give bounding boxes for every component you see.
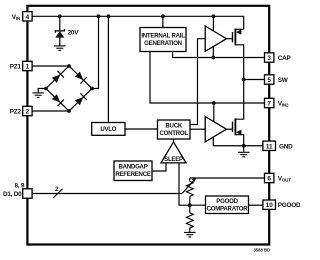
wire: bridge left corner to ground xyxy=(38,89,46,93)
wire: VIN rail from pin 4 to top MOSFET source xyxy=(32,16,243,29)
wire: internal rail generation top feed xyxy=(162,16,164,27)
bridge diode D3 (left-bottom) xyxy=(51,93,64,106)
svg-text:SW: SW xyxy=(278,77,289,84)
op-amp driver (top gate driver) xyxy=(205,26,226,51)
bridge rectifier diamond xyxy=(46,66,92,111)
svg-text:INTERNAL RAIL: INTERNAL RAIL xyxy=(141,33,185,40)
svg-text:6: 6 xyxy=(267,176,271,183)
wire: top driver supply stub xyxy=(212,16,214,31)
svg-text:BANDGAP: BANDGAP xyxy=(118,164,147,171)
pin 2 box xyxy=(23,106,32,115)
svg-text:UVLO: UVLO xyxy=(100,126,116,133)
wire: GND net to pin 11 xyxy=(213,145,264,147)
svg-text:11: 11 xyxy=(266,143,273,150)
pin 7 box xyxy=(265,98,274,107)
svg-text:REFERENCE: REFERENCE xyxy=(115,171,151,178)
ground (divider) xyxy=(184,232,196,237)
svg-text:COMPARATOR: COMPARATOR xyxy=(207,205,249,212)
svg-text:GND: GND xyxy=(279,143,293,150)
svg-text:4: 4 xyxy=(26,14,30,21)
wire: bottom driver lower supply to GND xyxy=(212,137,214,146)
block BANDGAP REFERENCE xyxy=(114,161,152,181)
wire: sleep output to feedback node xyxy=(179,163,206,205)
svg-text:CONTROL: CONTROL xyxy=(160,130,189,137)
svg-text:20V: 20V xyxy=(68,30,80,37)
svg-text:PZ1: PZ1 xyxy=(10,63,22,70)
transistor M2 (bottom switch) xyxy=(233,118,244,145)
wire: top driver lower supply to CAP line xyxy=(212,47,214,58)
pin name labels xyxy=(3,14,301,209)
wire: internal rail gen to VIN2 line xyxy=(150,52,264,104)
wire: buck control to bottom driver input xyxy=(190,128,205,130)
wire: pin 2 to bridge bottom xyxy=(32,110,69,112)
svg-text:7: 7 xyxy=(267,101,271,108)
bridge diode D4 (bottom-right) xyxy=(74,93,87,106)
wire: bandgap to sleep comparator xyxy=(152,163,166,171)
resistor R1 (programmable top divider) xyxy=(186,178,193,205)
wire: bottom driver output to NMOS gate xyxy=(226,128,232,130)
block INTERNAL RAIL GENERATION xyxy=(140,28,186,52)
svg-text:5: 5 xyxy=(267,77,271,84)
wire: UVLO to buck control xyxy=(125,128,158,130)
wire: pgood comparator output to pin 10 xyxy=(249,204,265,206)
svg-text:2: 2 xyxy=(26,109,30,116)
svg-text:10: 10 xyxy=(266,202,274,209)
pin 10 box xyxy=(263,200,276,209)
pin 6 box xyxy=(265,173,274,182)
svg-text:3588 BD: 3588 BD xyxy=(253,248,270,253)
svg-text:CAP: CAP xyxy=(278,55,292,62)
ground (power stage) xyxy=(238,146,250,157)
svg-text:PGOOD: PGOOD xyxy=(278,202,300,209)
block UVLO xyxy=(92,123,125,136)
transistor M1 (top switch) xyxy=(233,29,244,120)
comparator SLEEP xyxy=(161,142,186,163)
pin 4 box xyxy=(23,12,32,21)
wire: pin 1 to bridge top xyxy=(32,65,69,67)
bus slash (2 wires) xyxy=(54,189,63,198)
block PGOOD COMPARATOR xyxy=(206,196,249,214)
svg-text:SLEEP: SLEEP xyxy=(164,156,183,163)
svg-text:BUCK: BUCK xyxy=(165,123,182,130)
trim arrow across resistor xyxy=(182,178,197,194)
svg-text:GENERATION: GENERATION xyxy=(144,40,182,47)
svg-text:PGOOD: PGOOD xyxy=(216,198,238,205)
pin 3 box xyxy=(265,53,274,62)
zener diode 20V xyxy=(55,29,64,46)
pin 11 box xyxy=(263,141,276,150)
svg-text:PZ2: PZ2 xyxy=(10,108,22,115)
pin 1 box xyxy=(23,61,32,70)
ground (bridge) xyxy=(32,93,44,98)
block BUCK CONTROL xyxy=(158,120,191,139)
wire: VOUT line from pin 6 xyxy=(190,177,264,179)
wire: bridge output up to VIN rail xyxy=(92,16,99,88)
wire: UVLO feed from VIN rail xyxy=(107,16,109,122)
resistor R2 (bottom divider) xyxy=(186,205,193,232)
wire: top driver output to PMOS gate xyxy=(226,38,232,40)
pin 8,9 box xyxy=(23,189,32,198)
svg-text:8, 9: 8, 9 xyxy=(15,183,25,190)
wire: D1,D0 trim bus from pin 8,9 xyxy=(32,193,182,195)
ground (zener) xyxy=(54,46,66,51)
wire: zener stub from VIN rail xyxy=(59,16,61,30)
wire: buck control to top driver input xyxy=(190,39,205,125)
svg-text:1: 1 xyxy=(26,64,30,71)
wire: bottom driver supply from VIN2 line xyxy=(213,103,215,122)
block texts xyxy=(100,33,248,213)
wire: internal rail gen to CAP line xyxy=(173,52,265,58)
bridge diode D1 (left-top) xyxy=(51,71,64,84)
svg-text:3: 3 xyxy=(267,55,271,62)
svg-text:D1, D0: D1, D0 xyxy=(3,191,22,198)
package outline xyxy=(27,6,269,245)
pin 5 box xyxy=(265,75,274,84)
op-amp driver (bottom gate driver) xyxy=(205,117,226,142)
wire: SW net to pin 5 xyxy=(244,79,265,81)
bridge diode D2 (top-right) xyxy=(74,71,87,84)
wire: buck control to sleep apex xyxy=(173,139,175,142)
